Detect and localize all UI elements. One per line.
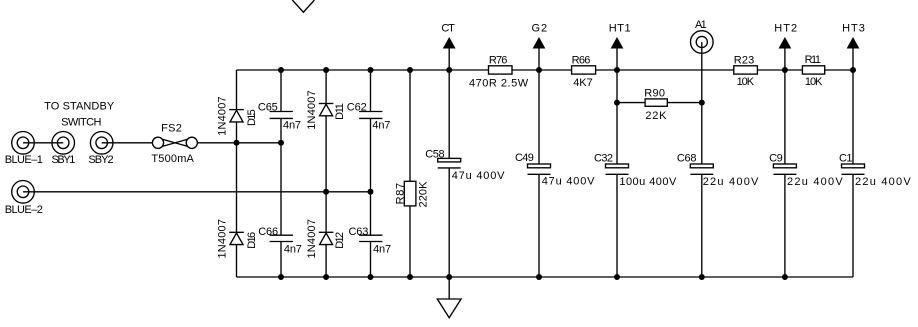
connector BLUE-1 <box>5 132 43 167</box>
capacitor C58 <box>425 149 505 183</box>
svg-text:D15: D15 <box>246 109 258 126</box>
node dot bottom C68 <box>699 274 705 280</box>
node CT <box>441 23 455 49</box>
wire G2 column <box>538 48 540 277</box>
wire A1 column <box>701 42 703 277</box>
svg-text:10K: 10K <box>737 76 755 88</box>
wire D11/D12 column <box>325 70 327 277</box>
wire D15/D16 column <box>236 70 238 277</box>
svg-text:10K: 10K <box>805 76 823 88</box>
wire bottom rail <box>237 276 854 278</box>
svg-text:1N4007: 1N4007 <box>217 219 229 258</box>
svg-text:C66: C66 <box>258 226 278 238</box>
svg-text:4K7: 4K7 <box>573 77 593 89</box>
svg-text:D12: D12 <box>334 232 346 249</box>
svg-text:470R 2.5W: 470R 2.5W <box>469 77 529 89</box>
svg-text:C49: C49 <box>515 152 534 164</box>
svg-text:CT: CT <box>441 23 455 35</box>
node A1 <box>691 19 714 53</box>
node dot top rail HT2 <box>782 67 788 73</box>
node dot blue2 row D11 <box>323 189 329 195</box>
wire BLUE-1 to SBY1 <box>23 142 63 144</box>
svg-text:C58: C58 <box>425 149 444 161</box>
svg-text:BLUE–2: BLUE–2 <box>5 204 43 216</box>
node dot top rail HT3 <box>850 67 856 73</box>
wire fuse to bridge <box>197 142 281 144</box>
svg-text:C62: C62 <box>347 102 367 114</box>
svg-text:C65: C65 <box>258 102 278 114</box>
capacitor C49 <box>515 152 595 187</box>
svg-text:47u 400V: 47u 400V <box>542 175 595 187</box>
svg-text:4n7: 4n7 <box>283 119 301 131</box>
svg-text:R76: R76 <box>489 55 508 67</box>
wire R90 row <box>617 102 702 104</box>
svg-text:D11: D11 <box>334 103 346 120</box>
wire SBY2 to fuse <box>102 142 153 144</box>
node dot fuse row C65 <box>278 140 284 146</box>
capacitor C9 <box>769 152 843 188</box>
svg-text:22u 400V: 22u 400V <box>787 176 843 188</box>
svg-text:R66: R66 <box>572 55 591 67</box>
node dot top rail D11 <box>323 67 329 73</box>
node G2 <box>532 23 548 49</box>
wire HT3 column <box>852 48 854 277</box>
svg-text:D16: D16 <box>246 232 258 249</box>
svg-text:BLUE–1: BLUE–1 <box>5 154 43 166</box>
wire R87 column <box>409 70 411 277</box>
connector SBY2 <box>88 132 113 167</box>
svg-text:T500mA: T500mA <box>151 153 194 165</box>
wire HT1 column <box>616 48 618 277</box>
resistor R90 <box>644 88 667 123</box>
svg-text:C68: C68 <box>677 152 697 164</box>
node dot top rail HT1 <box>614 67 620 73</box>
node dot bottom C9 <box>782 274 788 280</box>
svg-text:1N4007: 1N4007 <box>306 90 318 130</box>
svg-text:SBY2: SBY2 <box>88 154 113 166</box>
node dot top rail G2 <box>536 67 542 73</box>
svg-text:4n7: 4n7 <box>373 244 391 256</box>
node dot bottom C63 <box>368 274 374 280</box>
node dot R90 left <box>614 100 620 106</box>
connector SBY1 <box>52 132 76 167</box>
node dot bottom C58 <box>446 274 452 280</box>
svg-text:R23: R23 <box>734 55 754 67</box>
node HT2 <box>774 23 797 49</box>
node dot R90 right <box>699 100 705 106</box>
svg-text:R11: R11 <box>805 54 821 66</box>
label TO STANDBY SWITCH <box>44 100 115 128</box>
diode D15 <box>217 96 258 136</box>
svg-text:4n7: 4n7 <box>372 119 390 131</box>
svg-text:22u 400V: 22u 400V <box>703 176 759 188</box>
svg-text:C63: C63 <box>349 226 369 238</box>
capacitor C66 <box>258 226 302 256</box>
capacitor C1 <box>839 152 911 188</box>
node dot fuse row D15 <box>234 140 240 146</box>
svg-text:C32: C32 <box>594 152 613 164</box>
svg-text:47u 400V: 47u 400V <box>452 170 505 182</box>
svg-text:220K: 220K <box>418 181 430 208</box>
node HT1 <box>609 23 631 49</box>
svg-text:1N4007: 1N4007 <box>306 219 318 258</box>
capacitor C63 <box>349 226 392 256</box>
capacitor C68 <box>677 152 759 188</box>
svg-text:1N4007: 1N4007 <box>217 96 229 136</box>
capacitor C32 <box>594 152 677 188</box>
svg-text:HT1: HT1 <box>609 23 631 35</box>
svg-text:FS2: FS2 <box>161 122 182 134</box>
capacitor C62 <box>347 102 391 132</box>
svg-text:HT2: HT2 <box>774 23 797 35</box>
node dot bottom D12 <box>323 274 329 280</box>
ground (top, partially cut off) <box>292 0 314 12</box>
diode D12 <box>306 219 346 258</box>
node dot top rail R87 <box>407 67 413 73</box>
node dot blue2 row C62 <box>368 189 374 195</box>
resistor R76 <box>469 55 529 90</box>
capacitor C65 <box>258 102 301 132</box>
svg-text:G2: G2 <box>532 23 548 35</box>
diode D11 <box>306 90 346 130</box>
wire CT column <box>448 48 450 277</box>
svg-text:A1: A1 <box>695 19 707 31</box>
fuse FS2 <box>151 122 197 164</box>
resistor R23 <box>734 55 758 89</box>
node dot bottom C66 <box>278 274 284 280</box>
node dot bottom C49 <box>536 274 542 280</box>
svg-text:SWITCH: SWITCH <box>61 117 101 129</box>
wire BLUE-2 row <box>23 191 371 193</box>
ground (bottom) <box>437 277 461 318</box>
wire top rail <box>237 69 854 71</box>
svg-text:22u 400V: 22u 400V <box>855 176 911 188</box>
svg-text:4n7: 4n7 <box>284 244 302 256</box>
node dot top rail C65 <box>278 67 284 73</box>
svg-text:HT3: HT3 <box>842 23 865 35</box>
svg-text:C1: C1 <box>839 152 853 164</box>
node dot top rail CT <box>446 67 452 73</box>
node dot bottom R87 <box>407 274 413 280</box>
svg-text:SBY1: SBY1 <box>52 154 76 166</box>
svg-text:22K: 22K <box>645 110 667 122</box>
node dot top rail C62 <box>368 67 374 73</box>
resistor R11 <box>802 54 824 88</box>
svg-text:TO STANDBY: TO STANDBY <box>44 100 115 112</box>
wire C62/C63 column <box>370 70 372 277</box>
wire HT2 column <box>784 48 786 277</box>
svg-text:R87: R87 <box>394 183 406 205</box>
svg-text:R90: R90 <box>644 88 665 100</box>
resistor R87 <box>394 181 429 208</box>
resistor R66 <box>572 55 596 90</box>
wire C65/C66 column <box>280 70 282 277</box>
node HT3 <box>842 23 865 49</box>
svg-text:C9: C9 <box>769 152 783 164</box>
node dot bottom C32 <box>614 274 620 280</box>
diode D16 <box>217 219 258 258</box>
svg-text:100u 400V: 100u 400V <box>619 176 677 188</box>
connector BLUE-2 <box>5 181 43 217</box>
